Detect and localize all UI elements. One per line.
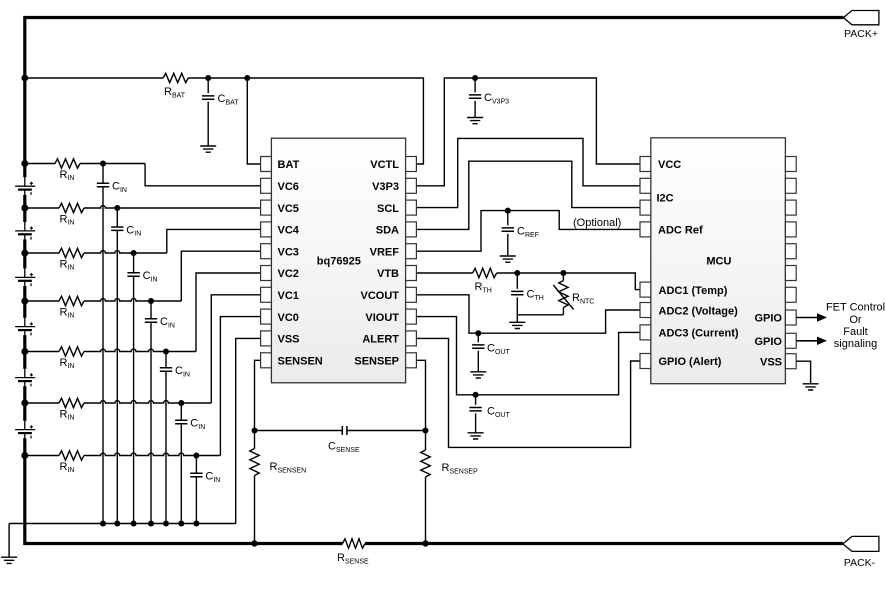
svg-text:ADC Ref: ADC Ref	[658, 225, 703, 237]
svg-text:signaling: signaling	[834, 338, 877, 350]
svg-text:VC4: VC4	[278, 225, 300, 237]
svg-text:ADC2 (Voltage): ADC2 (Voltage)	[659, 306, 739, 318]
svg-text:(Optional): (Optional)	[573, 217, 621, 229]
svg-text:VREF: VREF	[370, 246, 400, 258]
svg-text:GPIO: GPIO	[754, 313, 782, 325]
svg-text:SCL: SCL	[377, 203, 399, 215]
svg-text:VC2: VC2	[278, 268, 299, 280]
svg-text:SENSEN: SENSEN	[278, 356, 323, 368]
svg-text:VC3: VC3	[278, 246, 299, 258]
svg-text:MCU: MCU	[706, 255, 731, 267]
svg-text:FET Control: FET Control	[826, 302, 885, 314]
svg-text:VCOUT: VCOUT	[361, 290, 400, 302]
svg-text:BAT: BAT	[278, 159, 300, 171]
svg-text:VCTL: VCTL	[370, 159, 399, 171]
svg-text:VC0: VC0	[278, 312, 299, 324]
svg-text:GPIO: GPIO	[754, 336, 782, 348]
svg-text:VC5: VC5	[278, 203, 299, 215]
svg-text:VCC: VCC	[658, 159, 681, 171]
svg-text:PACK-: PACK-	[844, 557, 876, 569]
svg-text:VC1: VC1	[278, 290, 299, 302]
svg-text:bq76925: bq76925	[317, 255, 361, 267]
svg-text:ADC3 (Current): ADC3 (Current)	[659, 328, 739, 340]
svg-text:V3P3: V3P3	[372, 181, 399, 193]
svg-text:GPIO (Alert): GPIO (Alert)	[659, 356, 722, 368]
svg-text:VTB: VTB	[377, 268, 399, 280]
svg-text:SENSEP: SENSEP	[354, 356, 399, 368]
svg-text:VIOUT: VIOUT	[365, 312, 399, 324]
svg-text:ALERT: ALERT	[362, 334, 399, 346]
svg-text:PACK+: PACK+	[844, 28, 878, 40]
svg-text:VSS: VSS	[760, 356, 782, 368]
svg-text:Or: Or	[849, 314, 862, 326]
svg-text:ADC1 (Temp): ADC1 (Temp)	[659, 285, 728, 297]
svg-text:I2C: I2C	[657, 192, 674, 204]
svg-text:Fault: Fault	[843, 326, 867, 338]
svg-text:VC6: VC6	[278, 181, 299, 193]
svg-text:VSS: VSS	[278, 334, 300, 346]
svg-text:SDA: SDA	[376, 225, 399, 237]
